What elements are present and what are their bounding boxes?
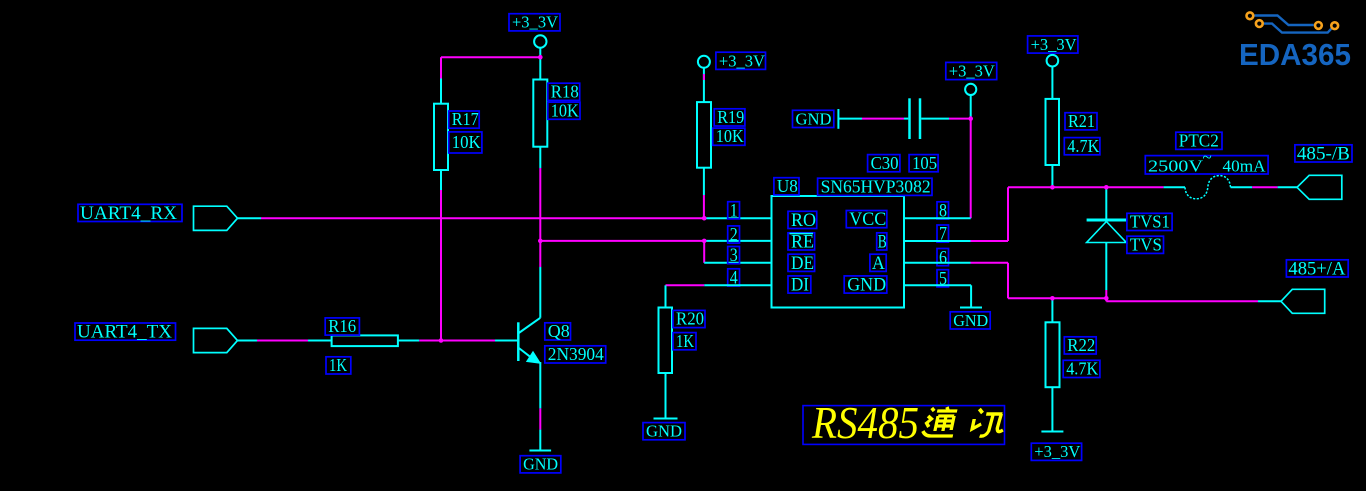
svg-text:2N3904: 2N3904	[548, 344, 604, 364]
svg-text:+3_3V: +3_3V	[1031, 35, 1078, 54]
svg-text:VCC: VCC	[849, 209, 886, 230]
svg-text:+3_3V: +3_3V	[949, 62, 996, 81]
svg-text:4.7K: 4.7K	[1067, 136, 1099, 156]
svg-text:TVS1: TVS1	[1130, 212, 1170, 232]
svg-text:485-/B: 485-/B	[1297, 144, 1350, 165]
svg-text:UART4_RX: UART4_RX	[80, 203, 177, 224]
svg-text:DI: DI	[791, 275, 809, 296]
svg-text:3: 3	[730, 245, 738, 266]
svg-text:B: B	[878, 232, 887, 253]
svg-text:1K: 1K	[329, 355, 347, 375]
svg-text:GND: GND	[953, 311, 988, 330]
svg-text:40mA: 40mA	[1223, 157, 1267, 176]
svg-text:U8: U8	[777, 176, 798, 196]
svg-text:GND: GND	[796, 109, 832, 128]
svg-text:10K: 10K	[716, 126, 744, 146]
svg-text:2: 2	[730, 225, 738, 246]
svg-text:SN65HVP3082: SN65HVP3082	[821, 176, 931, 196]
svg-text:10K: 10K	[551, 100, 579, 120]
svg-text:+3_3V: +3_3V	[719, 51, 766, 70]
svg-text:C30: C30	[871, 153, 899, 173]
svg-text:Q8: Q8	[548, 321, 570, 341]
svg-text:R20: R20	[676, 309, 704, 329]
svg-text:+3_3V: +3_3V	[1034, 442, 1081, 461]
svg-text:EDA365: EDA365	[1239, 37, 1351, 72]
svg-text:6: 6	[939, 247, 947, 268]
svg-text:PTC2: PTC2	[1179, 130, 1219, 150]
svg-text:105: 105	[912, 153, 937, 173]
svg-text:TVS: TVS	[1130, 234, 1162, 254]
svg-text:R21: R21	[1068, 111, 1095, 131]
svg-text:RS485: RS485	[811, 398, 919, 448]
svg-text:A: A	[872, 253, 885, 274]
svg-text:R16: R16	[328, 316, 356, 336]
svg-text:RO: RO	[791, 210, 816, 231]
svg-text:2500V: 2500V	[1148, 157, 1204, 176]
svg-text:485+/A: 485+/A	[1288, 259, 1345, 280]
svg-text:1: 1	[730, 200, 738, 221]
svg-text:GND: GND	[847, 275, 886, 296]
svg-text:1K: 1K	[676, 331, 694, 351]
svg-text:RE: RE	[791, 232, 814, 253]
svg-text:R18: R18	[551, 81, 579, 101]
svg-text:UART4_TX: UART4_TX	[77, 322, 172, 343]
svg-text:R17: R17	[452, 109, 479, 129]
svg-text:~: ~	[1203, 148, 1212, 167]
svg-text:+3_3V: +3_3V	[512, 13, 559, 32]
svg-text:DE: DE	[791, 253, 814, 274]
svg-text:GND: GND	[523, 455, 558, 474]
svg-text:GND: GND	[646, 422, 682, 441]
svg-text:4.7K: 4.7K	[1066, 359, 1098, 379]
svg-text:10K: 10K	[452, 132, 481, 152]
svg-text:R19: R19	[717, 107, 744, 127]
svg-text:R22: R22	[1067, 335, 1095, 355]
